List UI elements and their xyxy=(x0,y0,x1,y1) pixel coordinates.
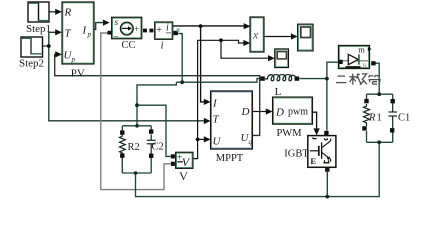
block scope1 xyxy=(298,24,313,51)
block Step2 xyxy=(21,37,43,57)
svg-text:i: i xyxy=(166,22,169,33)
block diode xyxy=(338,44,375,69)
capacitor C2 xyxy=(147,134,156,153)
svg-text:PWM: PWM xyxy=(276,128,302,139)
wire W4 PV Ip to CC s xyxy=(94,23,105,30)
capacitor C1 xyxy=(389,104,398,129)
wire W2 Step2 to PV T and MPPT T xyxy=(43,32,206,121)
wire W16 diode cathode to R1C1 and bottom rail xyxy=(136,63,393,196)
block scope2 xyxy=(275,49,289,68)
block IGBT xyxy=(308,131,336,172)
svg-text:IGBT: IGBT xyxy=(284,149,309,160)
svg-text:R: R xyxy=(368,113,376,124)
svg-text:pwm: pwm xyxy=(288,107,308,118)
svg-text:L: L xyxy=(275,86,282,98)
svg-text:PV: PV xyxy=(71,67,85,79)
svg-text:D: D xyxy=(241,106,250,118)
junction Step2 branch xyxy=(47,44,51,48)
svg-text:s: s xyxy=(115,18,119,28)
block MPPT xyxy=(211,91,253,149)
svg-text:+: + xyxy=(156,25,162,36)
wire W12 MPPT D to PWM xyxy=(252,111,267,113)
svg-text:m: m xyxy=(358,44,365,54)
svg-text:C1: C1 xyxy=(398,113,410,124)
block Step1 xyxy=(28,2,49,22)
wire W9 node to V plus xyxy=(137,105,171,156)
block PV xyxy=(62,2,94,64)
svg-text:T: T xyxy=(65,28,72,40)
block i current measurement xyxy=(149,22,179,39)
svg-text:D: D xyxy=(275,107,284,119)
svg-text:p: p xyxy=(87,31,92,39)
wire W3 U_q feedback to U_p xyxy=(55,54,260,135)
wire W5 CC minus gray trunk to V minus xyxy=(101,33,171,190)
svg-text:1: 1 xyxy=(377,113,382,124)
R2C2 loop frame xyxy=(122,126,151,173)
svg-text:C2: C2 xyxy=(152,142,164,153)
svg-text:q: q xyxy=(249,138,253,146)
label diode Chinese er-ji-guan xyxy=(336,74,381,85)
wire W13 PWM to IGBT gate xyxy=(312,112,316,129)
inductor L xyxy=(265,75,297,81)
svg-text:p: p xyxy=(71,56,76,64)
svg-text:Step2: Step2 xyxy=(19,57,44,69)
block product x xyxy=(250,17,264,52)
svg-text:_: _ xyxy=(113,28,119,38)
svg-text:x: x xyxy=(252,30,259,42)
svg-text:R: R xyxy=(363,62,368,69)
svg-text:Step1: Step1 xyxy=(26,23,51,35)
wire W11 product to scope1 xyxy=(264,36,292,38)
block PWM xyxy=(273,97,313,124)
wire W10 V output to MPPT U, product, scope2 xyxy=(193,40,269,158)
svg-text:V: V xyxy=(179,169,188,183)
wire W8 i electrical to node and inductor, staircase to R2C2 top xyxy=(137,34,261,126)
svg-text:T: T xyxy=(213,114,220,126)
block CC controlled current source xyxy=(108,17,148,38)
wire W7 i signal to product and MPPT I xyxy=(173,26,246,102)
svg-text:+: + xyxy=(134,24,139,34)
resistor R2 xyxy=(120,135,126,154)
svg-text:MPPT: MPPT xyxy=(216,153,244,164)
svg-text:E: E xyxy=(310,156,316,166)
block V voltage measurement xyxy=(171,152,193,169)
wire W15 node down to IGBT collector xyxy=(326,79,328,131)
svg-text:R2: R2 xyxy=(128,142,140,153)
wire W1 Step1 to PV R xyxy=(49,11,57,13)
resistor R1 xyxy=(364,104,370,126)
wire W14 node to diode anode xyxy=(299,62,338,78)
svg-text:U: U xyxy=(213,136,222,148)
svg-text:R: R xyxy=(64,7,72,19)
svg-text:CC: CC xyxy=(121,40,135,51)
svg-text:i: i xyxy=(160,40,163,52)
